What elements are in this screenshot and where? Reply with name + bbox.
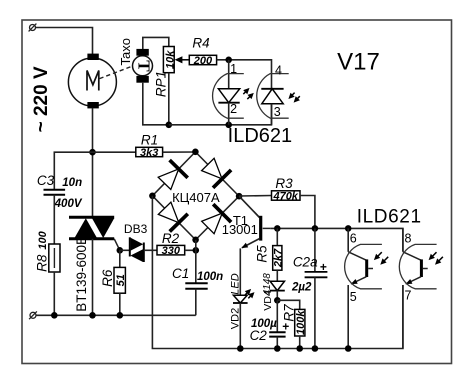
node motor/R1/C3 junction — [89, 149, 96, 156]
svg-text:ILD621: ILD621 — [228, 125, 293, 147]
svg-text:3: 3 — [274, 105, 281, 119]
svg-text:C1: C1 — [172, 266, 189, 281]
label Taxo — [118, 38, 133, 65]
value 100 — [37, 230, 49, 249]
svg-text:2µ2: 2µ2 — [291, 282, 312, 294]
wire bridge left node down to low bus — [152, 196, 403, 349]
svg-text:200: 200 — [193, 55, 213, 67]
bridge rectifier edges — [152, 152, 239, 240]
wire bridge bottom to C1 — [195, 240, 197, 283]
capacitor C2a — [305, 228, 328, 348]
svg-text:VD2: VD2 — [230, 308, 242, 329]
svg-text:C3: C3 — [37, 173, 55, 188]
node bus/C2a — [312, 345, 319, 352]
svg-text:R5: R5 — [255, 245, 270, 263]
node base/R3/C2a — [312, 225, 319, 232]
transistor T1 13001 — [239, 196, 270, 248]
capacitor C3 — [44, 190, 66, 195]
resistor R8 — [49, 244, 60, 272]
svg-text:R7: R7 — [282, 304, 297, 322]
RP1 wiper arrow from R4 — [180, 59, 189, 61]
dashed link motor to tacho — [100, 66, 132, 78]
svg-text:~ 220 V: ~ 220 V — [31, 66, 52, 132]
diode VD4 — [270, 281, 285, 300]
resistor R5 — [273, 228, 285, 281]
wire triac bottom to bus — [92, 239, 94, 315]
node RP1/tacho junction — [166, 122, 173, 129]
svg-text:4: 4 — [275, 63, 282, 77]
node bus/C2 — [274, 345, 281, 352]
resistor R6 — [114, 250, 127, 315]
node bridge bottom — [192, 237, 199, 244]
svg-text:1: 1 — [230, 62, 237, 76]
capacitor C1 — [185, 283, 207, 315]
diac DB3 — [130, 237, 144, 262]
resistor R1 — [93, 147, 196, 159]
node bus/R7 — [296, 345, 303, 352]
label R7 — [282, 304, 297, 322]
envelope LED B — [257, 74, 289, 119]
terminal X2 (bottom left) — [29, 311, 37, 319]
resistor R3 — [239, 191, 315, 229]
svg-text:100: 100 — [37, 230, 49, 249]
label RP1 — [154, 71, 169, 97]
value 4148 — [262, 273, 273, 296]
node bus/R6 — [117, 312, 124, 319]
svg-text:T: T — [134, 60, 153, 72]
triac VS1 BT139-600E — [69, 217, 114, 239]
label ~220V — [31, 66, 52, 132]
label BT139-600E — [74, 236, 89, 312]
label R8 — [35, 254, 50, 272]
label R6 — [100, 269, 115, 287]
light arrows VD2 — [245, 289, 255, 299]
svg-text:VD4: VD4 — [262, 290, 274, 311]
label VD2 — [230, 308, 242, 329]
capacitor C3 branch wire — [54, 152, 92, 190]
svg-text:400V: 400V — [54, 198, 83, 210]
svg-text:100k: 100k — [295, 310, 307, 335]
svg-text:6: 6 — [350, 232, 357, 246]
svg-text:3k3: 3k3 — [140, 147, 158, 159]
svg-text:R6: R6 — [100, 269, 115, 287]
svg-text:5: 5 — [350, 290, 357, 304]
svg-text:330: 330 — [162, 245, 181, 257]
node R2/C1 junction — [193, 247, 200, 254]
resistor R4 — [189, 55, 216, 67]
wire R8 to bus — [53, 272, 55, 315]
light arrows U1A — [374, 252, 388, 265]
node bus/VD2 — [237, 345, 244, 352]
motor M1 — [68, 54, 116, 109]
optocoupler U1 LED B (pins 4-3) — [261, 74, 283, 125]
node VD4/C2/R7 — [274, 297, 281, 304]
node bridge right — [236, 193, 243, 200]
node bus/triac — [89, 312, 96, 319]
phototransistor U1B (pins 8-7) — [399, 228, 436, 348]
label VD4 — [262, 290, 274, 311]
wire mains bus — [36, 314, 196, 316]
svg-text:10k: 10k — [165, 50, 177, 69]
envelope LED A — [213, 74, 244, 119]
optocoupler U1 LED A (pins 1-2) — [218, 60, 239, 125]
wire bottom of LED loop — [169, 104, 272, 125]
svg-text:DB3: DB3 — [124, 222, 148, 236]
light arrows LED A — [243, 88, 254, 99]
bridge diode top-right — [202, 158, 232, 188]
svg-text:C2a: C2a — [293, 255, 318, 270]
resistor R2 — [157, 245, 185, 257]
label R5 — [255, 245, 270, 263]
label LED — [229, 273, 241, 294]
wire C3 to R8 — [53, 195, 55, 244]
node pin1 top — [225, 57, 232, 64]
node base/R5 — [274, 225, 281, 232]
svg-text:R1: R1 — [141, 132, 158, 147]
svg-text:BT139-600E: BT139-600E — [74, 236, 89, 312]
tacho generator BR1 — [133, 49, 154, 83]
svg-text:10n: 10n — [62, 177, 82, 189]
svg-text:RP1: RP1 — [154, 71, 169, 97]
svg-text:R2: R2 — [162, 231, 180, 246]
wire tacho top to RP1 top — [143, 37, 169, 49]
svg-text:7: 7 — [405, 289, 412, 303]
svg-text:R8: R8 — [35, 254, 50, 272]
svg-text:LED: LED — [229, 273, 241, 294]
svg-text:R4: R4 — [192, 36, 209, 51]
wire T1 base bus — [270, 228, 403, 251]
svg-text:Taxo: Taxo — [118, 38, 133, 65]
svg-text:13001: 13001 — [222, 222, 258, 237]
node base/pin6 — [345, 225, 352, 232]
wire X1 to motor top — [36, 28, 93, 55]
svg-text:V17: V17 — [337, 49, 380, 76]
capacitor C2 — [269, 300, 285, 348]
svg-text:R3: R3 — [275, 176, 293, 191]
svg-text:470k: 470k — [272, 191, 298, 203]
LED VD2 — [233, 295, 248, 348]
wire T1 emitter to VD2 — [239, 248, 241, 295]
svg-text:2: 2 — [230, 102, 237, 116]
light arrows U1B — [429, 252, 443, 265]
svg-text:C2: C2 — [250, 328, 268, 343]
node gate junction — [117, 247, 124, 254]
terminal X1 (top left) — [29, 24, 37, 32]
wire tacho bottom to junction — [143, 83, 169, 125]
svg-text:51: 51 — [115, 274, 127, 286]
phototransistor U1A (pins 6-5) — [345, 228, 382, 348]
svg-text:+: + — [320, 260, 327, 274]
wire RP1 bottom to junction — [168, 73, 170, 125]
wire R4 to LED loop top — [217, 60, 272, 74]
wire R2 to bridge bottom — [185, 249, 196, 251]
bridge diode top-left — [158, 160, 188, 189]
svg-text:ILD621: ILD621 — [357, 207, 422, 228]
node bus/R8 — [51, 312, 58, 319]
node pin2 bottom — [225, 122, 232, 129]
bridge diode bottom-left — [158, 202, 188, 231]
node bridge top — [192, 149, 199, 156]
node bridge left — [149, 193, 156, 200]
svg-text:КЦ407А: КЦ407А — [172, 190, 220, 205]
wire triac gate — [114, 239, 120, 251]
svg-text:2k7: 2k7 — [273, 248, 285, 268]
node bus/pin5 — [345, 345, 352, 352]
wire DB3 to R2 — [144, 249, 157, 251]
svg-text:100n: 100n — [197, 271, 223, 283]
light arrows LED B — [288, 93, 300, 103]
svg-text:8: 8 — [405, 232, 412, 246]
potentiometer RP1 — [163, 47, 176, 73]
wire gate to DB3 — [120, 249, 130, 251]
resistor R7 — [277, 300, 307, 348]
bridge diode bottom-right — [202, 204, 231, 234]
wire motor bottom to triac — [92, 108, 94, 217]
